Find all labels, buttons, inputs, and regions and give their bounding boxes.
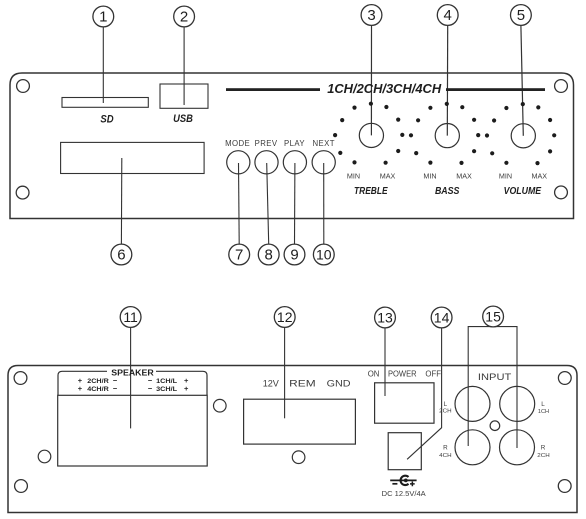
front panel screw hole top-right <box>555 80 568 93</box>
VOLUME scale dots <box>485 102 556 165</box>
callout leader line 5 (to VOLUME knob) <box>521 25 523 135</box>
svg-text:+: + <box>78 384 83 393</box>
RCA jack R 2CH (bottom-right) <box>500 430 535 465</box>
svg-text:12: 12 <box>277 309 293 325</box>
callout leader line 8 <box>267 163 269 244</box>
callout leader line 1 (to SD slot) <box>102 27 104 103</box>
callout leader bracket 15 (to input jacks) <box>468 327 517 448</box>
callout circle 1 <box>93 6 114 27</box>
callout circle 14 <box>431 307 452 328</box>
callout circle 2 <box>174 6 195 27</box>
svg-text:DC 12.5V/4A: DC 12.5V/4A <box>382 489 426 498</box>
svg-text:4CH/R: 4CH/R <box>87 386 109 393</box>
decorative bar left segment <box>226 88 320 91</box>
svg-text:REM: REM <box>289 379 316 389</box>
svg-text:MIN: MIN <box>499 171 512 180</box>
front panel outline <box>10 73 574 219</box>
svg-text:1: 1 <box>99 9 107 26</box>
svg-text:MIN: MIN <box>347 171 360 180</box>
svg-text:14: 14 <box>434 310 450 326</box>
small hole between RCA jacks <box>490 421 500 431</box>
BASS knob <box>435 124 459 148</box>
RCA jack R 4CH (bottom-left) <box>455 430 490 465</box>
callout circle 7 <box>229 244 250 265</box>
callout leader line 11 (to speaker terminal) <box>130 327 132 428</box>
svg-text:6: 6 <box>117 247 125 264</box>
svg-text:8: 8 <box>265 247 273 264</box>
svg-text:BASS: BASS <box>435 186 460 197</box>
USB port <box>160 84 208 108</box>
callout leader line 10 <box>323 163 325 244</box>
callout circle 9 <box>284 244 305 265</box>
power switch <box>375 383 434 423</box>
rear small hole right of speaker block <box>214 399 227 412</box>
svg-text:INPUT: INPUT <box>478 372 512 383</box>
svg-text:MAX: MAX <box>380 171 396 180</box>
svg-text:3: 3 <box>367 7 375 24</box>
svg-text:SD: SD <box>100 114 113 126</box>
svg-text:MAX: MAX <box>532 171 548 180</box>
svg-text:5: 5 <box>517 7 525 24</box>
callout circle 8 <box>258 244 279 265</box>
svg-text:3CH/L: 3CH/L <box>156 386 177 393</box>
svg-text:L: L <box>444 401 448 408</box>
svg-text:2CH: 2CH <box>537 453 550 459</box>
MODE button <box>227 151 250 174</box>
power terminal block <box>244 399 356 444</box>
SD card slot <box>62 98 148 108</box>
svg-text:USB: USB <box>173 113 193 125</box>
leader 14 tail inside DC jack <box>407 446 421 459</box>
callout leader line 2 (to USB port) <box>183 27 185 105</box>
svg-text:15: 15 <box>485 309 501 325</box>
rear screw hole bottom-right <box>558 480 571 493</box>
svg-text:1CH: 1CH <box>538 409 550 415</box>
rear screw hole top-left <box>14 372 27 385</box>
svg-text:1CH/2CH/3CH/4CH: 1CH/2CH/3CH/4CH <box>327 81 442 96</box>
callout circle 5 <box>511 5 532 26</box>
svg-text:13: 13 <box>377 310 393 326</box>
DC jack <box>388 433 421 470</box>
svg-text:12V: 12V <box>263 379 280 389</box>
display window <box>61 142 205 173</box>
RCA jack L 2CH (top-left) <box>455 386 490 421</box>
TREBLE scale dots <box>333 102 404 165</box>
svg-text:MAX: MAX <box>456 171 472 180</box>
callout leader line 4 (to BASS knob) <box>446 25 448 135</box>
svg-text:9: 9 <box>290 247 298 264</box>
svg-text:NEXT: NEXT <box>312 139 334 148</box>
callout circle 15 <box>483 306 504 327</box>
svg-text:OFF: OFF <box>425 370 441 379</box>
svg-text:4: 4 <box>444 7 452 24</box>
svg-text:−: − <box>148 384 153 393</box>
BASS scale dots <box>409 102 480 165</box>
svg-text:GND: GND <box>327 379 351 389</box>
svg-text:2CH: 2CH <box>439 409 452 415</box>
svg-text:TREBLE: TREBLE <box>354 186 388 197</box>
callout leader line 13 (to power switch) <box>384 328 386 396</box>
PLAY button <box>283 151 306 174</box>
callout circle 12 <box>274 307 295 328</box>
svg-text:−: − <box>113 384 118 393</box>
rear panel outline <box>8 366 577 513</box>
callout circle 13 <box>375 307 396 328</box>
speaker label bracket <box>58 371 207 395</box>
speaker terminal block <box>58 395 208 466</box>
svg-text:MODE: MODE <box>225 139 250 148</box>
svg-text:2CH/R: 2CH/R <box>87 378 109 385</box>
leader 13 tail inside switch <box>384 383 386 396</box>
svg-text:11: 11 <box>123 309 138 325</box>
PREV button <box>255 151 278 174</box>
svg-text:L: L <box>541 401 545 408</box>
callout leader line 12 (to power terminal) <box>284 327 286 418</box>
callout circle 10 <box>313 244 334 265</box>
callout leader line 14 (to DC jack) <box>407 328 442 460</box>
front panel screw hole top-left <box>17 80 30 93</box>
svg-text:ON: ON <box>368 370 380 379</box>
svg-text:MIN: MIN <box>423 171 436 180</box>
svg-text:VOLUME: VOLUME <box>504 186 542 197</box>
svg-text:R: R <box>443 444 448 451</box>
svg-text:PLAY: PLAY <box>284 139 305 148</box>
rear small hole left of speaker block <box>38 450 51 463</box>
TREBLE knob <box>359 123 383 147</box>
callout leader line 6 (from display) <box>120 158 122 244</box>
callout leader line 7 <box>238 163 241 244</box>
callout circle 3 <box>361 5 382 26</box>
RCA jack L 1CH (top-right) <box>500 386 535 421</box>
callout circle 4 <box>437 5 458 26</box>
rear screw hole top-right <box>558 372 571 385</box>
svg-text:POWER: POWER <box>388 370 417 379</box>
callout leader line 9 <box>294 163 296 244</box>
svg-text:PREV: PREV <box>255 139 278 148</box>
svg-text:+: + <box>184 384 189 393</box>
svg-text:10: 10 <box>316 247 332 263</box>
svg-text:1CH/L: 1CH/L <box>156 378 177 385</box>
VOLUME knob <box>511 124 535 148</box>
svg-text:2: 2 <box>180 9 188 26</box>
rear small hole below power terminal <box>292 451 305 464</box>
callout circle 6 <box>111 244 132 265</box>
rear screw hole bottom-left <box>15 480 28 493</box>
svg-text:7: 7 <box>235 247 243 264</box>
svg-text:4CH: 4CH <box>439 453 452 459</box>
NEXT button <box>312 151 335 174</box>
front panel screw hole bottom-right <box>555 186 568 199</box>
DC polarity symbol <box>390 476 416 487</box>
decorative bar right segment <box>446 88 545 91</box>
callout circle 11 <box>120 307 141 328</box>
callout leader line 3 (to TREBLE knob, acts as pointer) <box>370 25 372 135</box>
svg-text:R: R <box>541 444 546 451</box>
front panel screw hole bottom-left <box>16 186 29 199</box>
